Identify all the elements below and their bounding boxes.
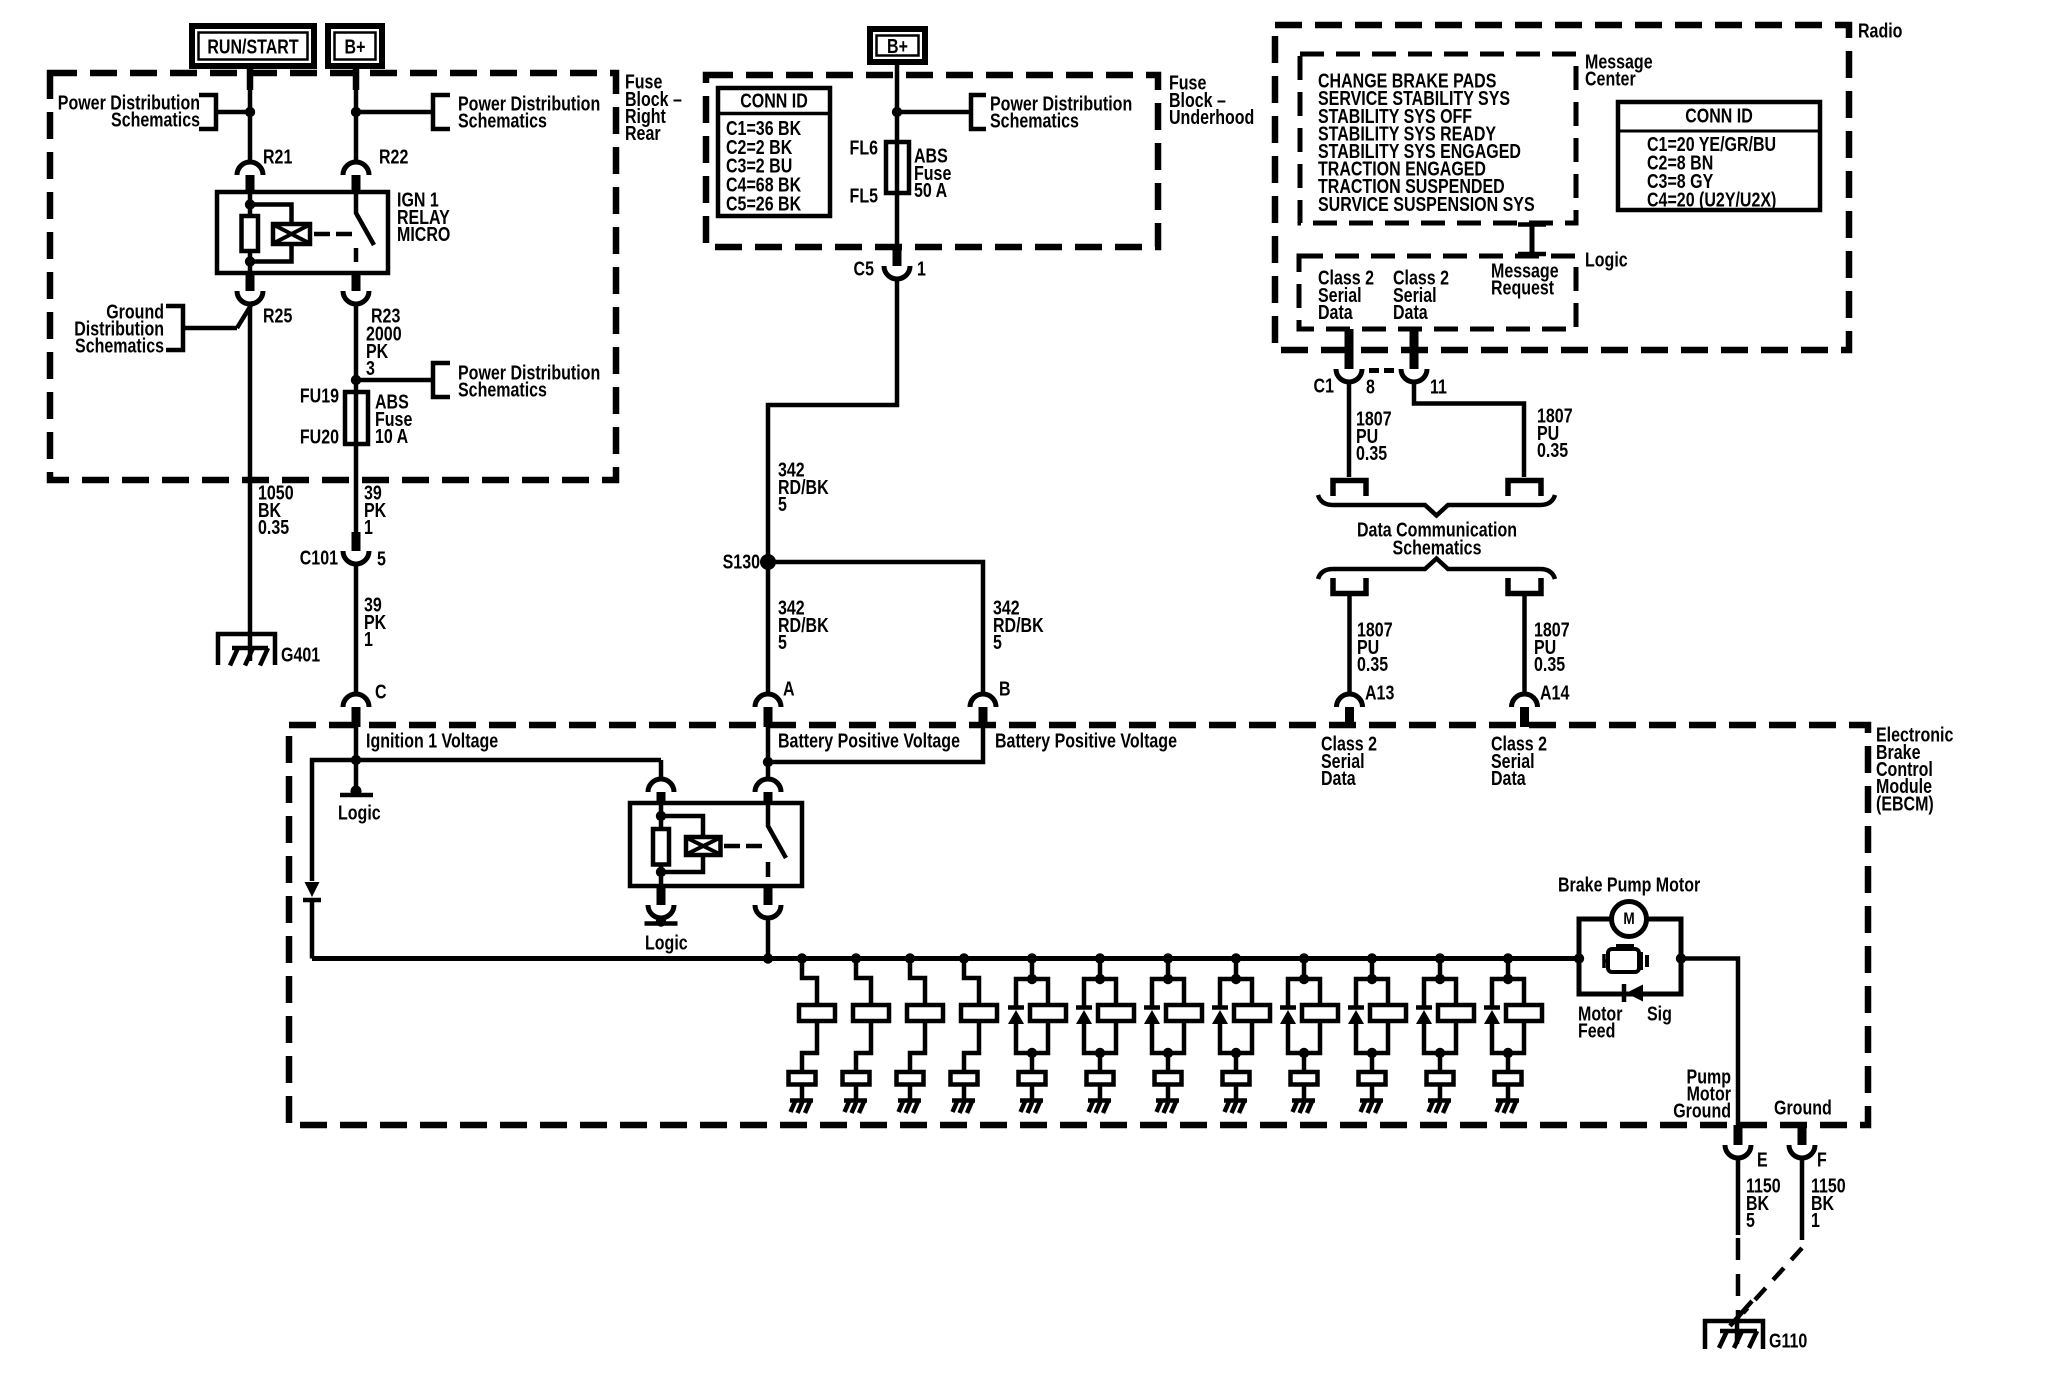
diode (solenoid branch 10)	[1348, 1005, 1364, 1010]
radio dashed box	[1275, 25, 1849, 350]
relay coil resistor (EBCM)	[653, 829, 669, 865]
svg-text:B+: B+	[887, 35, 908, 57]
svg-text:Sig: Sig	[1647, 1003, 1672, 1025]
node	[1095, 1048, 1105, 1058]
wire pin B to junction	[768, 727, 983, 762]
wire	[1220, 1021, 1252, 1053]
svg-text:Radio: Radio	[1858, 20, 1902, 42]
ground G110	[1705, 1321, 1763, 1349]
diode (solenoid branch 8)	[1212, 1005, 1228, 1010]
node	[656, 867, 666, 877]
junction on B+ wire	[351, 107, 361, 117]
svg-text:5: 5	[377, 548, 386, 570]
svg-text:A13: A13	[1365, 682, 1394, 704]
wire	[1152, 1021, 1184, 1053]
solenoid coil 8	[1234, 1005, 1270, 1021]
svg-text:Schematics: Schematics	[458, 379, 547, 401]
junction solenoid branch 4	[959, 953, 969, 963]
connector C1 pin 11	[1410, 329, 1419, 369]
brace upper	[1318, 495, 1555, 516]
svg-text:Feed: Feed	[1578, 1020, 1615, 1042]
ground	[1496, 1098, 1519, 1103]
off-page connector right (down)	[1508, 481, 1541, 497]
motor terminals	[1574, 953, 1584, 963]
svg-text:Data: Data	[1321, 767, 1356, 789]
wire RUN/START feed to R21	[248, 69, 253, 162]
fuse block - underhood dashed box	[706, 75, 1158, 247]
svg-text:0.35: 0.35	[1357, 653, 1388, 675]
bracket to power distribution schematics (underhood)	[897, 110, 971, 115]
logic tap (ignition)	[351, 786, 362, 797]
junction solenoid branch 3	[905, 953, 915, 963]
diode (solenoid branch 12)	[1484, 1005, 1500, 1010]
off-page connector left (up)	[1333, 578, 1366, 594]
node	[1299, 1048, 1309, 1058]
wire	[1370, 959, 1375, 980]
junction on RUN/START wire	[245, 107, 255, 117]
ground	[898, 1098, 921, 1103]
svg-text:0.35: 0.35	[1537, 439, 1568, 461]
junction at FU19	[351, 375, 361, 385]
wire	[856, 959, 871, 1006]
solenoid coil 12	[1506, 1005, 1542, 1021]
svg-text:R22: R22	[379, 146, 408, 168]
svg-text:10 A: 10 A	[375, 425, 408, 447]
junction solenoid branch 8	[1231, 953, 1241, 963]
solenoid coil 5	[1030, 1005, 1066, 1021]
bracket to power distribution schematics (right top)	[356, 110, 433, 115]
svg-text:Rear: Rear	[625, 123, 661, 145]
svg-text:C5: C5	[854, 258, 874, 280]
connector A (battery positive)	[755, 694, 781, 707]
diode (ignition feed)	[305, 882, 320, 897]
diode (solenoid branch 9)	[1280, 1005, 1296, 1010]
wire R23 to fuse FU19	[354, 304, 359, 392]
wire	[1424, 979, 1456, 1006]
wire	[1166, 1085, 1171, 1101]
node	[1027, 1048, 1037, 1058]
svg-text:Data: Data	[1393, 301, 1428, 323]
valve switch box 1	[789, 1072, 816, 1085]
svg-text:8: 8	[1366, 376, 1375, 398]
logic dashed box (radio)	[1299, 256, 1576, 329]
node	[1027, 974, 1037, 984]
node	[1163, 1048, 1173, 1058]
svg-text:CONN ID: CONN ID	[1685, 105, 1753, 127]
ground	[1292, 1098, 1315, 1103]
wire	[1438, 1085, 1443, 1101]
junction solenoid branch 1	[797, 953, 807, 963]
svg-text:1: 1	[364, 628, 373, 650]
wire	[1030, 1085, 1035, 1101]
wire	[1098, 1085, 1103, 1101]
wire	[1166, 1053, 1171, 1072]
connector C5 pin 1	[893, 247, 902, 266]
svg-text:F: F	[1817, 1149, 1827, 1171]
node	[245, 199, 255, 209]
wire	[1492, 979, 1524, 1006]
solenoid coil 7	[1166, 1005, 1202, 1021]
node	[1435, 1048, 1445, 1058]
wire	[856, 1021, 871, 1072]
svg-text:A14: A14	[1540, 682, 1569, 704]
off-page connector left (down)	[1333, 481, 1366, 497]
connector E	[1734, 1125, 1743, 1145]
svg-text:A: A	[783, 678, 795, 700]
pump icon	[1608, 949, 1639, 972]
wire	[802, 959, 817, 1006]
svg-text:B: B	[999, 678, 1011, 700]
wire relay coil column	[248, 192, 253, 273]
ground	[952, 1098, 975, 1103]
wire pin E to G110	[1736, 1158, 1741, 1235]
relay switch top connector (EBCM)	[755, 779, 781, 792]
wire	[802, 1021, 817, 1072]
wire	[964, 959, 979, 1006]
wire	[1288, 979, 1320, 1006]
solenoid coil 10	[1370, 1005, 1406, 1021]
connector R25	[237, 291, 263, 304]
wire S130 to EBCM pin A	[766, 562, 771, 694]
svg-text:R21: R21	[263, 146, 292, 168]
bracket to ground distribution schematics	[166, 306, 183, 350]
junction on underhood B+ wire	[892, 107, 902, 117]
junction solenoid branch 7	[1163, 953, 1173, 963]
solenoid coil 9	[1302, 1005, 1338, 1021]
svg-text:Center: Center	[1585, 68, 1636, 90]
svg-text:Logic: Logic	[338, 802, 381, 824]
junction solenoid branch 12	[1503, 953, 1513, 963]
connector R22	[343, 162, 369, 175]
node	[1163, 974, 1173, 984]
motor feed bus	[312, 956, 1579, 961]
valve switch box 5	[1019, 1072, 1046, 1085]
svg-text:G401: G401	[281, 644, 320, 666]
wire	[1438, 959, 1443, 980]
wire	[1492, 1021, 1524, 1053]
splice S130	[760, 554, 776, 570]
svg-text:Ground: Ground	[1774, 1097, 1832, 1119]
svg-text:C: C	[375, 681, 387, 703]
node	[1095, 974, 1105, 984]
svg-text:MICRO: MICRO	[397, 223, 450, 245]
wire	[1098, 1053, 1103, 1072]
logic tap (relay coil)	[659, 918, 664, 921]
wire	[1370, 1053, 1375, 1072]
junction solenoid branch 2	[851, 953, 861, 963]
fuse ABS 50A FL6/FL5	[895, 142, 900, 193]
wire fuse FL5 to box edge	[895, 193, 900, 247]
diode (solenoid branch 6)	[1076, 1005, 1092, 1010]
svg-text:R25: R25	[263, 305, 292, 327]
connector B (battery positive)	[970, 694, 996, 707]
node	[1367, 1048, 1377, 1058]
wire	[854, 1085, 859, 1101]
svg-text:1: 1	[917, 258, 926, 280]
svg-text:50 A: 50 A	[914, 179, 947, 201]
relay coil (IGN 1)	[273, 224, 310, 244]
wire	[1234, 1085, 1239, 1101]
relay switch (EBCM)	[768, 803, 786, 877]
wire	[1084, 979, 1116, 1006]
svg-text:Ignition 1 Voltage: Ignition 1 Voltage	[366, 730, 498, 752]
svg-text:G110: G110	[1769, 1330, 1807, 1352]
wire relay output to bus	[766, 918, 771, 959]
ground	[1020, 1098, 1043, 1103]
relay IGN 1 MICRO	[217, 192, 388, 273]
ground	[844, 1098, 867, 1103]
connector C (EBCM ignition 1 voltage)	[343, 694, 369, 707]
svg-text:Ground: Ground	[1673, 1100, 1731, 1122]
solenoid coil 3	[907, 1005, 943, 1021]
wire	[1152, 979, 1184, 1006]
svg-text:Logic: Logic	[1585, 249, 1628, 271]
wire	[1084, 1021, 1116, 1053]
wire C5 to splice S130	[768, 279, 897, 562]
connector A13	[1337, 694, 1363, 707]
relay switch bottom connector (EBCM)	[764, 886, 773, 905]
wire	[1302, 1085, 1307, 1101]
svg-text:Schematics: Schematics	[111, 109, 200, 131]
svg-text:0.35: 0.35	[1356, 442, 1387, 464]
svg-text:3: 3	[366, 357, 375, 379]
EBCM dashed box	[289, 725, 1868, 1125]
node	[1503, 974, 1513, 984]
wire	[1030, 959, 1035, 980]
brake pump motor	[1579, 919, 1681, 994]
motor M circle	[1612, 902, 1647, 937]
bracket to power distribution schematics (left)	[199, 95, 216, 129]
valve switch box 6	[1087, 1072, 1114, 1085]
svg-text:11: 11	[1430, 376, 1447, 398]
wire to EBCM pin A14	[1522, 593, 1527, 694]
svg-text:FL6: FL6	[850, 137, 878, 159]
node	[1231, 1048, 1241, 1058]
wire	[910, 959, 925, 1006]
svg-text:0.35: 0.35	[1534, 653, 1565, 675]
ignition line to diode	[312, 760, 661, 881]
valve switch box 8	[1223, 1072, 1250, 1085]
wire	[1438, 1053, 1443, 1072]
wire	[1506, 1053, 1511, 1072]
relay coil (EBCM)	[686, 837, 721, 855]
wire fuse to C101	[354, 444, 359, 538]
wire	[1016, 1021, 1048, 1053]
svg-text:Data: Data	[1318, 301, 1353, 323]
svg-text:Request: Request	[1491, 277, 1554, 299]
wire ignition line to relay coil	[659, 760, 664, 779]
wire	[910, 1021, 925, 1072]
wire	[1302, 959, 1307, 980]
svg-text:C1: C1	[1314, 375, 1334, 397]
wire	[1234, 959, 1239, 980]
link message center to logic	[1530, 223, 1535, 256]
wire	[800, 1085, 805, 1101]
connector C101 pin 5	[352, 532, 361, 551]
svg-text:Schematics: Schematics	[458, 110, 547, 132]
wire	[1424, 1021, 1456, 1053]
valve switch box 3	[897, 1072, 924, 1085]
fuse block - right rear dashed box	[50, 73, 616, 480]
junction solenoid branch 9	[1299, 953, 1309, 963]
wire	[1302, 1053, 1307, 1072]
svg-text:1: 1	[364, 516, 373, 538]
ground	[1088, 1098, 1111, 1103]
junction solenoid branch 11	[1435, 953, 1445, 963]
svg-text:FL5: FL5	[850, 185, 878, 207]
svg-text:FU19: FU19	[300, 385, 339, 407]
solenoid coil 4	[961, 1005, 997, 1021]
valve switch box 2	[843, 1072, 870, 1085]
fuse ABS 10A FU19/FU20	[354, 392, 359, 444]
power feed box B+ (fuse block underhood)	[870, 29, 925, 62]
power feed box B+ (fuse block right rear)	[328, 26, 382, 66]
node	[656, 811, 666, 821]
connector F	[1798, 1125, 1807, 1145]
wire	[1234, 1053, 1239, 1072]
valve switch box 7	[1155, 1072, 1182, 1085]
ground	[1156, 1098, 1179, 1103]
ground G401	[218, 634, 275, 665]
junction solenoid branch 6	[1095, 953, 1105, 963]
wire	[1356, 979, 1388, 1006]
wire pin A to relay switch	[766, 727, 771, 779]
wire	[1016, 979, 1048, 1006]
wire	[1370, 1085, 1375, 1101]
svg-text:1: 1	[1811, 1209, 1820, 1231]
solenoid coil 2	[853, 1005, 889, 1021]
wire pin 11 to off-page	[1414, 382, 1524, 477]
node	[1367, 974, 1377, 984]
wire C101 to EBCM pin C	[354, 564, 359, 694]
valve switch box 12	[1495, 1072, 1522, 1085]
relay actuation dashes	[314, 232, 352, 237]
ground	[1224, 1098, 1247, 1103]
svg-text:Data: Data	[1491, 767, 1526, 789]
svg-text:5: 5	[778, 631, 787, 653]
svg-text:E: E	[1757, 1149, 1768, 1171]
connector R21	[237, 162, 263, 175]
node	[245, 256, 255, 266]
valve switch box 11	[1427, 1072, 1454, 1085]
junction A/B	[763, 757, 773, 767]
off-page connector right (up)	[1508, 578, 1541, 594]
wire	[1166, 959, 1171, 980]
wire B+ feed to R22	[354, 69, 359, 162]
power feed box RUN/START	[192, 26, 314, 66]
wire	[1220, 979, 1252, 1006]
wire	[1288, 1021, 1320, 1053]
wire motor to pin E	[1681, 959, 1738, 1126]
diode (solenoid branch 5)	[1008, 1005, 1024, 1010]
diode (solenoid branch 11)	[1416, 1005, 1432, 1010]
wire	[962, 1085, 967, 1101]
svg-text:FU20: FU20	[300, 426, 339, 448]
wire	[908, 1085, 913, 1101]
diode (solenoid branch 7)	[1144, 1005, 1160, 1010]
wire relay coil column	[659, 803, 664, 886]
svg-text:Schematics: Schematics	[990, 110, 1079, 132]
connector C1 pin 8	[1345, 329, 1354, 369]
relay switch (IGN 1)	[356, 192, 374, 262]
connector R23	[343, 291, 369, 304]
ground	[1360, 1098, 1383, 1103]
svg-text:SURVICE SUSPENSION SYS: SURVICE SUSPENSION SYS	[1318, 193, 1535, 215]
junction solenoid branch 10	[1367, 953, 1377, 963]
junction ignition line	[351, 755, 361, 765]
svg-text:Schematics: Schematics	[75, 335, 164, 357]
ground	[790, 1098, 813, 1103]
svg-text:5: 5	[1746, 1209, 1755, 1231]
wire pin 8 to off-page	[1347, 382, 1352, 477]
bracket to power distribution schematics (mid)	[356, 378, 433, 383]
wire R25 to ground G401	[248, 304, 253, 661]
wire B+ to fuse FL6	[895, 65, 900, 142]
svg-text:0.35: 0.35	[258, 516, 289, 538]
junction relay output on bus	[763, 953, 773, 963]
wire	[1356, 1021, 1388, 1053]
svg-text:Schematics: Schematics	[1393, 537, 1482, 559]
connector id table (underhood)	[718, 88, 830, 216]
solenoid coil 1	[799, 1005, 835, 1021]
diode motor sig	[1622, 984, 1627, 1002]
wire pin F to G110 (dashed)	[1800, 1158, 1805, 1228]
wire	[1098, 959, 1103, 980]
svg-text:Battery Positive Voltage: Battery Positive Voltage	[995, 730, 1177, 752]
solenoid coil 11	[1438, 1005, 1474, 1021]
svg-text:B+: B+	[345, 36, 366, 58]
connector id table (radio)	[1618, 102, 1820, 210]
svg-text:Brake Pump Motor: Brake Pump Motor	[1558, 874, 1700, 896]
svg-text:C4=20 (U2Y/U2X): C4=20 (U2Y/U2X)	[1647, 189, 1776, 211]
svg-text:RUN/START: RUN/START	[207, 36, 298, 58]
brace lower	[1318, 559, 1555, 580]
svg-text:Underhood: Underhood	[1169, 106, 1254, 128]
wire	[1506, 1085, 1511, 1101]
wire	[964, 1021, 979, 1072]
wire	[1506, 959, 1511, 980]
svg-text:M: M	[1623, 910, 1634, 929]
node	[1299, 974, 1309, 984]
node	[1231, 974, 1241, 984]
message center dashed box	[1300, 54, 1576, 223]
ground	[1428, 1098, 1451, 1103]
svg-text:(EBCM): (EBCM)	[1876, 793, 1934, 815]
node	[1503, 1048, 1513, 1058]
svg-text:Logic: Logic	[645, 932, 688, 954]
valve switch box 10	[1359, 1072, 1386, 1085]
solenoid coil 6	[1098, 1005, 1134, 1021]
wire	[1030, 1053, 1035, 1072]
svg-text:C101: C101	[300, 547, 338, 569]
junction solenoid branch 5	[1027, 953, 1037, 963]
wire to EBCM pin A13	[1347, 593, 1352, 694]
svg-text:CONN ID: CONN ID	[740, 90, 808, 112]
wire pin C to logic tap	[354, 727, 359, 793]
node	[1435, 974, 1445, 984]
relay coil top connector (EBCM)	[648, 779, 674, 792]
svg-text:5: 5	[778, 493, 787, 515]
svg-text:S130: S130	[723, 551, 760, 573]
svg-text:Battery Positive Voltage: Battery Positive Voltage	[778, 730, 960, 752]
svg-text:5: 5	[993, 631, 1002, 653]
relay (EBCM internal)	[630, 803, 802, 886]
valve switch box 4	[951, 1072, 978, 1085]
connector A14	[1512, 694, 1538, 707]
relay coil bottom connector (EBCM)	[657, 886, 666, 905]
wire S130 to EBCM pin B	[768, 562, 983, 694]
svg-text:C5=26 BK: C5=26 BK	[726, 193, 801, 215]
